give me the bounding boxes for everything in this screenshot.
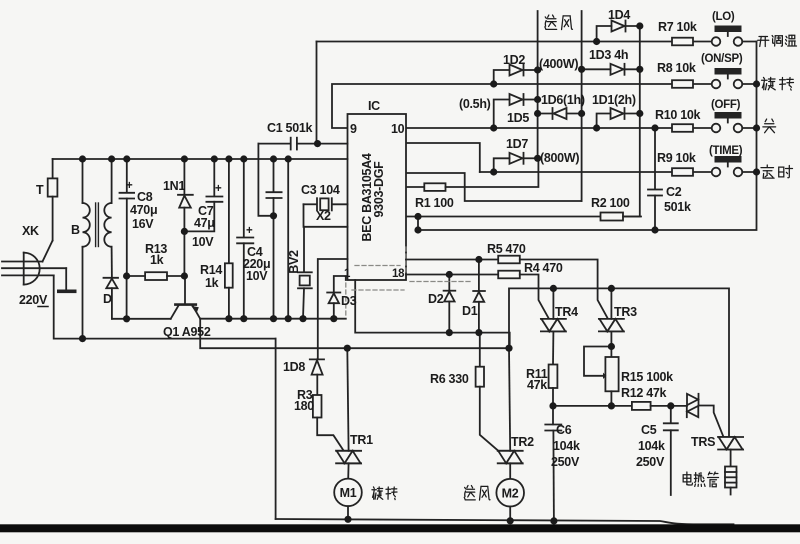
- wire: ghost dash row above D3: [355, 265, 400, 267]
- resistor R2 and its row from IC: [406, 216, 601, 218]
- svg-text:(400W): (400W): [539, 57, 578, 71]
- node 2: [636, 22, 643, 29]
- wire: upper rail (288) to triac anodes: [509, 288, 729, 437]
- svg-text:104k: 104k: [553, 439, 580, 453]
- node 22: [314, 140, 321, 147]
- push button (LO): [712, 26, 743, 46]
- node 39: [270, 315, 277, 322]
- svg-text:(800W): (800W): [540, 151, 579, 165]
- node 10: [578, 110, 585, 117]
- wire: neutral down to bottom rail: [54, 275, 276, 338]
- node 8: [534, 96, 541, 103]
- svg-text:R7 10k: R7 10k: [658, 20, 697, 34]
- resistor R6: [476, 333, 499, 452]
- svg-text:IC: IC: [368, 99, 380, 113]
- node 34: [181, 228, 188, 235]
- svg-text:10V: 10V: [246, 269, 268, 283]
- svg-text:1k: 1k: [205, 276, 219, 290]
- svg-text:C2: C2: [666, 185, 682, 199]
- label 送 (M2): [464, 486, 475, 500]
- node 13: [490, 168, 497, 175]
- wire: link from C1 node up to R7 row: [316, 42, 318, 144]
- resistor R1 with wire up to 1D7 cathode node: [406, 186, 424, 188]
- diode 1D1: [597, 108, 640, 128]
- wire: pin row to TR1 gate chain: [318, 259, 348, 359]
- node 1: [593, 38, 600, 45]
- capacitor C7: [184, 159, 222, 231]
- svg-text:R1 100: R1 100: [415, 196, 454, 210]
- node 6: [636, 66, 643, 73]
- label 旋 (M1): [372, 487, 383, 499]
- svg-text:1N1: 1N1: [163, 179, 185, 193]
- resistor R3: [313, 395, 344, 451]
- diode 1D2: [494, 65, 538, 85]
- node 56: [344, 516, 351, 523]
- node 37: [225, 315, 232, 322]
- resistor R12: [632, 402, 651, 410]
- motor M1: [334, 463, 362, 519]
- svg-text:D3: D3: [341, 294, 357, 308]
- label 电: [683, 472, 692, 485]
- node 14: [534, 155, 541, 162]
- node 48: [446, 329, 453, 336]
- node 7: [490, 124, 497, 131]
- potentiometer R15: [584, 331, 619, 406]
- svg-text:XK: XK: [22, 224, 39, 238]
- label 送 (top): [545, 15, 557, 29]
- node 38: [240, 315, 247, 322]
- node 41: [299, 315, 306, 322]
- label 风 (M2): [480, 486, 491, 500]
- svg-text:TR2: TR2: [511, 435, 534, 449]
- label 时: [779, 166, 793, 178]
- svg-text:D: D: [103, 292, 112, 306]
- node 19: [651, 226, 658, 233]
- label 220V underline: [38, 306, 48, 308]
- wire: Q1 collector row: [112, 318, 171, 320]
- svg-text:C3 104: C3 104: [301, 183, 340, 197]
- svg-text:D1: D1: [462, 304, 478, 318]
- node 26: [181, 155, 188, 162]
- node 5: [578, 66, 585, 73]
- capacitor C2: [648, 128, 662, 230]
- node 51: [608, 285, 615, 292]
- wire: R8 row (from IC pin 9 jog to ON/SP button): [332, 84, 672, 128]
- node 12: [636, 110, 643, 117]
- transistor Q1 A952: [171, 305, 201, 319]
- svg-text:TR3: TR3: [614, 305, 637, 319]
- svg-text:TR1: TR1: [350, 433, 373, 447]
- node 50: [550, 285, 557, 292]
- node 35: [270, 212, 277, 219]
- svg-text:1D3 4h: 1D3 4h: [589, 48, 628, 62]
- node 53: [608, 402, 615, 409]
- svg-text:R14: R14: [200, 263, 222, 277]
- node 52: [549, 402, 556, 409]
- resistor R14: [225, 159, 233, 319]
- svg-text:1D1(2h): 1D1(2h): [592, 93, 636, 107]
- label 温: [785, 35, 796, 46]
- wire: rail link at 288: [287, 159, 289, 319]
- capacitor C1: [258, 138, 347, 150]
- wire: R7 row (top row to LO button): [317, 41, 673, 43]
- switch XK blade: [43, 241, 53, 262]
- wire: ghost dash row below IC: [352, 289, 404, 291]
- node 17: [753, 168, 760, 175]
- node 24: [108, 155, 115, 162]
- wire: button ON/SP to right bus: [742, 83, 756, 85]
- wire: ghost dash row near pin 18: [410, 281, 470, 283]
- svg-text:C1 501k: C1 501k: [267, 121, 313, 135]
- wire: R2 node branch down to bus row: [417, 217, 419, 231]
- resistor R4: [498, 271, 520, 279]
- wire: right bus down to C2 bottom row: [418, 42, 757, 231]
- node 54: [667, 402, 674, 409]
- wire: button TIME to right bus: [742, 171, 756, 173]
- svg-text:R2 100: R2 100: [591, 196, 630, 210]
- wire: C8 branch to collector row: [126, 276, 128, 319]
- node 42: [330, 315, 337, 322]
- node 16: [753, 124, 760, 131]
- svg-text:R6 330: R6 330: [430, 372, 469, 386]
- label 旋: [762, 77, 776, 89]
- resonator X2 with C3: [304, 198, 348, 210]
- svg-text:1D8: 1D8: [283, 360, 305, 374]
- transformer core: [96, 203, 99, 247]
- node 36: [123, 315, 130, 322]
- wire: 1N1/C7 node down to R13 and Q1 base: [183, 231, 185, 276]
- svg-text:C5: C5: [641, 423, 657, 437]
- svg-text:250V: 250V: [636, 455, 665, 469]
- svg-text:+: +: [215, 183, 222, 195]
- triac TR4: [541, 319, 566, 332]
- transformer B secondary winding: [104, 159, 112, 278]
- wire: column line 1 (left of diode matrix): [537, 11, 539, 158]
- svg-text:250V: 250V: [551, 455, 580, 469]
- svg-text:(LO): (LO): [712, 11, 735, 23]
- wire: faded pin1 ghost: [345, 283, 347, 316]
- svg-text:X2: X2: [316, 209, 331, 223]
- diode 1D7: [494, 153, 538, 172]
- node 45: [505, 345, 512, 352]
- node 29: [240, 155, 247, 162]
- svg-text:R4 470: R4 470: [524, 261, 563, 275]
- node 27: [211, 155, 218, 162]
- svg-text:180: 180: [294, 399, 314, 413]
- label 管: [707, 472, 718, 487]
- node 47: [475, 256, 482, 263]
- wire: R9 row (from IC pin via 1D7 node to TIME button): [406, 143, 480, 172]
- svg-text:M1: M1: [340, 486, 357, 500]
- node 58: [550, 517, 557, 524]
- node 25: [123, 155, 130, 162]
- svg-text:10: 10: [391, 122, 405, 136]
- node 23: [79, 155, 86, 162]
- node 44: [344, 345, 351, 352]
- resonator BV2: [298, 227, 312, 319]
- resistor R8: [672, 80, 693, 88]
- resistor R10: [672, 124, 693, 132]
- node 4: [534, 66, 541, 73]
- svg-text:1: 1: [344, 268, 351, 280]
- svg-text:C8: C8: [137, 190, 153, 204]
- diode 1D6 (points left): [538, 108, 582, 119]
- svg-text:104k: 104k: [638, 439, 665, 453]
- label 开: [758, 37, 769, 47]
- svg-text:BV2: BV2: [287, 250, 301, 274]
- diac trigger diode: [671, 394, 724, 437]
- wire: TR3 anode: [610, 288, 612, 319]
- border bar at bottom: [0, 524, 800, 532]
- wire: TR1 anode from 348 rail: [347, 348, 348, 451]
- svg-text:Q1 A952: Q1 A952: [163, 325, 211, 339]
- svg-text:1D7: 1D7: [506, 137, 528, 151]
- wire: column line 3: [623, 26, 640, 217]
- svg-text:+: +: [126, 180, 133, 192]
- diode 1D4: [597, 21, 640, 42]
- svg-text:TRS: TRS: [691, 435, 715, 449]
- wire: pin10 / R10 row (to OFF button): [406, 127, 672, 129]
- heater element: [725, 450, 737, 495]
- diode 1D8: [310, 359, 324, 395]
- diode D: [104, 278, 119, 319]
- capacitor C5: [664, 406, 678, 495]
- diode D1: [473, 260, 485, 333]
- triac TR3: [599, 319, 624, 332]
- node 31: [285, 155, 292, 162]
- node 9: [534, 110, 541, 117]
- svg-text:R8 10k: R8 10k: [657, 61, 696, 75]
- fuse T: [48, 159, 58, 241]
- node 32: [123, 272, 130, 279]
- svg-text:B: B: [71, 223, 80, 237]
- node 18: [651, 124, 658, 131]
- svg-text:C6: C6: [556, 423, 572, 437]
- svg-text:T: T: [36, 183, 44, 197]
- svg-text:9303-DGF: 9303-DGF: [372, 161, 386, 218]
- svg-text:16V: 16V: [132, 217, 154, 231]
- svg-text:(OFF): (OFF): [711, 99, 741, 111]
- capacitor C6: [545, 406, 561, 521]
- resistor R11: [549, 331, 558, 406]
- label 定: [761, 165, 774, 178]
- svg-text:R10 10k: R10 10k: [655, 108, 701, 122]
- node 40: [285, 315, 292, 322]
- push button (ON/SP): [712, 68, 743, 88]
- svg-text:+: +: [246, 225, 253, 237]
- wire: ghost IC edge: [405, 247, 407, 275]
- svg-text:1D5: 1D5: [507, 111, 529, 125]
- diode D3: [327, 276, 346, 319]
- label 关: [763, 119, 776, 133]
- capacitor C4: [237, 159, 253, 319]
- svg-text:M2: M2: [502, 487, 519, 501]
- resistor R5 row: [406, 259, 498, 261]
- ground bar (neutral): [57, 268, 77, 293]
- wire: R5 to TR3 gate: [520, 260, 608, 319]
- diode D2: [444, 275, 456, 333]
- svg-text:47k: 47k: [527, 378, 547, 392]
- svg-text:1D6(1h): 1D6(1h): [541, 93, 585, 107]
- resistor R9: [672, 168, 693, 176]
- node 15: [753, 80, 760, 87]
- wire: IC pin 18 row (332): [355, 280, 510, 348]
- wire: main supply rail (159): [53, 158, 348, 160]
- svg-text:1k: 1k: [150, 253, 164, 267]
- wire: TR2 anode from 348 node: [509, 348, 510, 451]
- push button (TIME): [712, 156, 743, 176]
- wire: TR4 anode: [552, 288, 554, 319]
- node 33: [181, 272, 188, 279]
- svg-text:R9 10k: R9 10k: [657, 151, 696, 165]
- triac TR2: [498, 451, 523, 464]
- triac TRS: [718, 437, 743, 450]
- wire: button OFF to right bus: [742, 127, 756, 129]
- node 11: [593, 124, 600, 131]
- svg-text:18: 18: [392, 268, 405, 280]
- node 46: [446, 271, 453, 278]
- wire: C1 left lead loop down to cap node: [258, 144, 273, 216]
- diode 1D3: [582, 64, 640, 75]
- wire: R4 to TR4 gate: [520, 275, 549, 319]
- svg-text:R12 47k: R12 47k: [621, 386, 667, 400]
- node 30: [270, 155, 277, 162]
- svg-text:10V: 10V: [192, 235, 214, 249]
- wire: IC pin to line2 bottom: [406, 173, 582, 201]
- motor M2: [496, 463, 524, 521]
- resistor R7: [672, 38, 693, 46]
- node 55: [608, 343, 615, 350]
- wire: Q1 emitter rail (318): [200, 318, 346, 320]
- svg-text:47μ: 47μ: [194, 216, 215, 230]
- node 20: [414, 213, 421, 220]
- wire: neutral rail drop to bottom bus: [275, 339, 277, 519]
- wire: button LO to right bus: [742, 41, 756, 43]
- svg-text:(TIME): (TIME): [709, 145, 743, 157]
- svg-text:D2: D2: [428, 292, 444, 306]
- node 49: [475, 329, 482, 336]
- diode 1D5: [494, 94, 538, 128]
- capacitor C8: [120, 159, 135, 276]
- diode 1N1: [178, 159, 193, 231]
- triac TR1: [336, 451, 361, 464]
- wire: X2 loop to second IC pin: [304, 204, 348, 227]
- capacitor (unlabeled, at 273): [266, 159, 281, 319]
- svg-text:9: 9: [350, 122, 357, 136]
- label 调: [772, 36, 782, 47]
- svg-text:470μ: 470μ: [130, 203, 157, 217]
- svg-text:220V: 220V: [19, 293, 48, 307]
- label 风 (top): [562, 16, 573, 30]
- svg-text:(0.5h): (0.5h): [459, 97, 491, 111]
- svg-text:1D2: 1D2: [503, 53, 525, 67]
- node 21: [414, 226, 421, 233]
- resistor R4 row: [406, 274, 498, 276]
- svg-text:R15 100k: R15 100k: [621, 370, 673, 384]
- svg-text:TR4: TR4: [555, 305, 578, 319]
- svg-text:R5 470: R5 470: [487, 242, 526, 256]
- wire: emitter drop to 348 rail: [200, 319, 509, 348]
- resistor R5: [498, 256, 520, 264]
- node 3: [490, 80, 497, 87]
- op-amp U1: IC BA3105A4 body: [348, 114, 407, 280]
- svg-text:1D4: 1D4: [608, 8, 630, 22]
- AC plug 220V: [2, 253, 66, 285]
- wire: column line 2: [581, 11, 583, 201]
- wire: R12 row: [553, 405, 632, 407]
- svg-text:501k: 501k: [664, 200, 691, 214]
- resistor R13: [127, 272, 185, 280]
- transformer B primary winding: [83, 159, 90, 339]
- node 28: [225, 155, 232, 162]
- wire: bottom bus: [276, 519, 734, 524]
- label 热: [694, 473, 705, 487]
- label 转: [780, 78, 794, 91]
- label 转 (M1): [386, 487, 397, 500]
- svg-text:(ON/SP): (ON/SP): [701, 53, 743, 65]
- node 43: [79, 335, 86, 342]
- node 57: [507, 517, 514, 524]
- push button (OFF): [712, 112, 743, 132]
